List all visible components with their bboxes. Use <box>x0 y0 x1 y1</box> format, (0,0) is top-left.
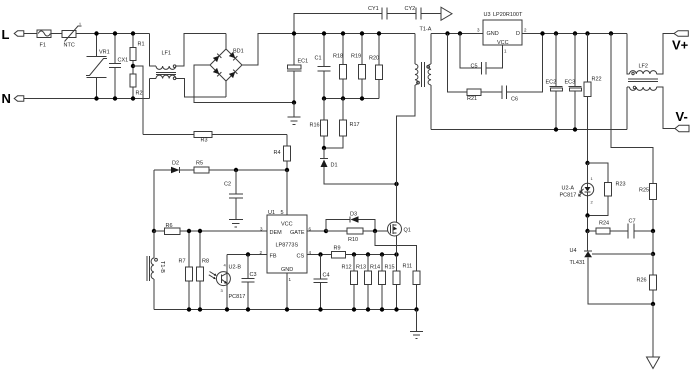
junction EC3 rail <box>573 31 577 35</box>
terminal V- <box>675 109 689 132</box>
svg-text:T1-A: T1-A <box>420 27 432 33</box>
svg-text:R15: R15 <box>385 265 395 271</box>
svg-text:R11: R11 <box>403 264 413 270</box>
wire secondary top rail <box>431 33 483 35</box>
junction R14 rail <box>380 307 384 311</box>
earth output <box>652 304 654 357</box>
svg-text:R9: R9 <box>334 246 341 252</box>
junction R22 rail <box>585 31 589 35</box>
junction R18 bottom <box>341 96 345 100</box>
svg-text:R26: R26 <box>637 278 647 284</box>
resistor R23 <box>588 163 626 216</box>
diode D2 <box>154 161 194 174</box>
svg-text:GND: GND <box>281 267 293 273</box>
wire CY branch <box>294 14 382 34</box>
earth arrow <box>441 7 452 20</box>
svg-text:R3: R3 <box>201 138 208 144</box>
capacitor C4 <box>314 255 330 310</box>
wire R25 branch <box>611 34 653 184</box>
junction R1 R2 <box>131 64 135 68</box>
svg-text:DEM: DEM <box>270 230 283 236</box>
svg-text:R12: R12 <box>342 265 352 271</box>
resistor R15 <box>385 255 401 310</box>
junction C1 bottom <box>322 96 326 100</box>
fuse F1 <box>37 30 51 49</box>
resistor R1 <box>130 34 145 67</box>
resistor R10 <box>326 228 388 243</box>
resistor R6 <box>154 223 267 234</box>
junction C4 rail <box>318 307 322 311</box>
resistor R19 <box>351 34 366 99</box>
diode D3 <box>326 212 375 232</box>
junction C6 rail <box>540 31 544 35</box>
svg-text:EC1: EC1 <box>298 59 309 65</box>
svg-text:R19: R19 <box>351 54 361 60</box>
junction C2 top <box>234 168 238 172</box>
inductor LF2 <box>627 34 675 130</box>
optocoupler U2-A <box>560 163 594 216</box>
resistor R17 <box>324 99 360 149</box>
junction R18 rail <box>341 31 345 35</box>
wire BD1 positive to DC rail <box>242 34 415 66</box>
svg-text:R6: R6 <box>166 223 173 229</box>
resistor R22 <box>584 34 602 164</box>
wire NTC to rail <box>76 33 150 35</box>
junction opto A bottom <box>585 213 589 217</box>
junction R13 rail <box>366 307 370 311</box>
capacitor C1 <box>315 34 331 99</box>
svg-text:PC817: PC817 <box>560 193 577 199</box>
svg-text:CY2: CY2 <box>405 6 416 12</box>
svg-text:CS: CS <box>297 254 305 260</box>
junction T1B rail <box>187 307 191 311</box>
inductor LF1 <box>150 34 227 99</box>
svg-text:EC3: EC3 <box>565 80 576 86</box>
svg-text:U4: U4 <box>570 248 577 254</box>
svg-text:C1: C1 <box>315 56 322 62</box>
junction EC2 rail <box>554 31 558 35</box>
resistor R8 <box>197 231 210 310</box>
svg-text:TL431: TL431 <box>570 260 586 266</box>
svg-text:R17: R17 <box>350 122 360 128</box>
svg-text:R24: R24 <box>599 221 609 227</box>
svg-text:D: D <box>516 31 520 37</box>
svg-text:LF1: LF1 <box>162 51 171 57</box>
junction R25 bottom <box>651 229 655 233</box>
junction R25 rail <box>609 31 613 35</box>
resistor R18 <box>333 34 347 99</box>
junction R15 rail <box>394 307 398 311</box>
junction R19 rail <box>360 31 364 35</box>
junction VCC node <box>285 168 289 172</box>
junction opto A top <box>585 161 589 165</box>
svg-text:N: N <box>2 91 11 106</box>
resistor R12 <box>342 255 358 310</box>
transformer T1-B <box>147 231 165 310</box>
varistor VR1 <box>86 34 110 99</box>
junction D1 drain <box>394 182 398 186</box>
svg-text:FB: FB <box>270 254 277 260</box>
svg-text:D3: D3 <box>350 212 357 218</box>
resistor R7 <box>179 231 193 310</box>
capacitor C5 <box>460 34 486 75</box>
IC U3 LP20R100T <box>477 12 527 54</box>
junction rail 447 <box>445 31 449 35</box>
svg-text:PC817: PC817 <box>229 294 246 300</box>
junction C3 rail <box>246 307 250 311</box>
junction R16 D1 <box>322 146 326 150</box>
wire Q1 drain <box>396 184 398 222</box>
svg-text:EC2: EC2 <box>546 80 557 86</box>
wire primary bottom rail <box>154 309 417 311</box>
wire gate pulldown branch <box>375 231 417 271</box>
resistor R13 <box>356 255 372 310</box>
capacitor CY2 <box>405 6 442 20</box>
svg-text:CX1: CX1 <box>118 58 129 64</box>
svg-text:GATE: GATE <box>290 230 305 236</box>
junction R8 rail <box>198 307 202 311</box>
svg-text:R8: R8 <box>202 259 209 265</box>
svg-text:C3: C3 <box>250 272 257 278</box>
wire secondary ground rail <box>431 129 627 131</box>
ground C2 <box>229 220 243 228</box>
svg-text:R14: R14 <box>370 265 380 271</box>
terminal V+ <box>672 31 689 53</box>
svg-text:VR1: VR1 <box>99 50 110 56</box>
svg-text:D1: D1 <box>331 163 338 169</box>
junction ref node <box>651 252 655 256</box>
resistor R9 <box>332 246 397 258</box>
junction R12 rail <box>352 307 356 311</box>
svg-text:V-: V- <box>676 109 688 124</box>
resistor R3 <box>194 132 287 144</box>
svg-text:D2: D2 <box>172 161 179 167</box>
svg-text:C7: C7 <box>629 219 636 225</box>
wire R1R2 junction to R3 <box>133 66 143 135</box>
svg-text:R25: R25 <box>639 188 649 194</box>
terminal L <box>2 27 24 42</box>
junction C1 rail <box>322 31 326 35</box>
svg-text:U1: U1 <box>268 210 275 216</box>
svg-text:LF2: LF2 <box>639 64 648 70</box>
junction R26 bottom <box>651 302 655 306</box>
resistor R20 <box>369 34 383 99</box>
junction U2B rail <box>225 307 229 311</box>
junction R8 top <box>198 229 202 233</box>
svg-text:R13: R13 <box>356 265 366 271</box>
svg-text:R18: R18 <box>333 54 343 60</box>
mosfet Q1 <box>388 222 411 236</box>
capacitor C2 <box>224 170 243 220</box>
svg-text:R21: R21 <box>467 96 477 102</box>
svg-text:CY1: CY1 <box>368 6 379 12</box>
capacitor EC3 <box>565 34 582 130</box>
resistor R26 <box>637 254 657 304</box>
svg-text:R16: R16 <box>310 123 320 129</box>
terminal N <box>2 91 24 106</box>
wire U1 GND pin <box>286 273 288 310</box>
wire BD1 top input <box>225 34 227 50</box>
resistor R16 <box>310 99 328 149</box>
svg-text:R1: R1 <box>138 42 145 48</box>
junction R2 bottom <box>131 96 135 100</box>
capacitor C6 <box>502 34 543 103</box>
svg-text:V+: V+ <box>672 38 689 53</box>
junction C3 top <box>246 252 250 256</box>
junction GND rail <box>285 307 289 311</box>
capacitor C3 <box>242 255 257 310</box>
svg-text:LP8773S: LP8773S <box>276 243 299 249</box>
junction CX1 bottom <box>113 96 117 100</box>
junction R19 bottom <box>360 96 364 100</box>
junction R15 top <box>394 252 398 256</box>
capacitor C7 <box>628 219 653 239</box>
junction EC1 top <box>292 31 296 35</box>
IC U1 LP8773S <box>260 210 312 282</box>
wire divider <box>652 231 654 254</box>
wire BD1 bottom input <box>225 81 227 97</box>
wire D2 left leg <box>153 170 155 231</box>
svg-text:L: L <box>2 27 10 42</box>
resistor R5 <box>194 161 287 174</box>
svg-text:GND: GND <box>487 31 499 37</box>
svg-text:R20: R20 <box>369 56 379 62</box>
capacitor EC2 <box>546 34 563 130</box>
resistor R24 <box>588 221 629 235</box>
resistor R4 <box>274 135 291 171</box>
svg-text:R22: R22 <box>592 77 602 83</box>
svg-text:U2-B: U2-B <box>229 265 242 271</box>
svg-text:R23: R23 <box>616 182 626 188</box>
svg-text:R4: R4 <box>274 150 281 156</box>
junction EC1 bottom <box>292 100 296 104</box>
junction R12 top <box>352 252 356 256</box>
ground primary <box>288 103 301 125</box>
svg-text:LP20R100T: LP20R100T <box>493 12 523 18</box>
svg-text:VCC: VCC <box>281 222 293 228</box>
wire R21 branch <box>448 34 468 93</box>
capacitor EC1 <box>287 34 308 103</box>
ground R11 <box>410 310 423 339</box>
junction R13 top <box>366 252 370 256</box>
capacitor CX1 <box>109 34 128 99</box>
svg-text:R2: R2 <box>136 91 143 97</box>
wire R3 feed <box>143 134 194 136</box>
svg-text:R10: R10 <box>348 237 358 243</box>
svg-text:T1-B: T1-B <box>159 261 165 273</box>
svg-text:NTC: NTC <box>64 43 75 49</box>
svg-text:5: 5 <box>281 210 284 216</box>
diode D1 <box>320 148 397 184</box>
junction VR1 top <box>94 31 98 35</box>
wire L input <box>24 33 37 35</box>
bridge rectifier BD1 <box>210 49 244 82</box>
svg-text:C4: C4 <box>323 273 330 279</box>
shunt regulator U4 TL431 <box>570 231 654 304</box>
wire GATE row <box>307 230 326 232</box>
junction R11 rail <box>414 307 418 311</box>
resistor R14 <box>370 255 386 310</box>
svg-text:U2-A: U2-A <box>562 186 575 192</box>
junction rail 460 <box>458 31 462 35</box>
thermistor NTC <box>62 21 82 49</box>
junction R7 top <box>187 229 191 233</box>
resistor R25 <box>639 184 657 232</box>
svg-text:R7: R7 <box>179 259 186 265</box>
junction gate right <box>373 229 377 233</box>
capacitor CY1 <box>368 6 416 20</box>
junction R1 top <box>131 31 135 35</box>
wire U3 VCC <box>486 45 503 68</box>
wire F1 to NTC <box>51 33 62 35</box>
resistor R11 <box>403 264 421 310</box>
wire N rail <box>24 98 150 100</box>
svg-text:BD1: BD1 <box>233 49 244 55</box>
wire U3 D to output rail <box>522 33 627 35</box>
junction R20 rail <box>377 31 381 35</box>
svg-text:C5: C5 <box>471 64 478 70</box>
junction EC2 ground <box>554 127 558 131</box>
junction R24 node <box>585 229 589 233</box>
wire BD1 negative to ground rail <box>194 65 294 103</box>
wire VCC pin <box>286 170 288 215</box>
svg-text:R5: R5 <box>196 161 203 167</box>
transformer T1-A <box>397 27 432 223</box>
junction DEM node <box>152 229 156 233</box>
resistor R2 <box>130 66 143 99</box>
junction EC3 ground <box>573 127 577 131</box>
svg-text:Q1: Q1 <box>404 228 411 234</box>
junction CX1 top <box>113 31 117 35</box>
wire Q1 source <box>396 236 398 255</box>
wire FB row <box>227 254 267 256</box>
svg-text:U3: U3 <box>484 12 491 18</box>
wire opto to R24 <box>587 216 589 232</box>
wire snubber bus <box>324 98 379 100</box>
svg-text:F1: F1 <box>40 43 46 49</box>
optocoupler U2-B <box>209 255 246 310</box>
wire CS row <box>307 254 332 256</box>
junction R14 top <box>380 252 384 256</box>
junction VR1 bottom <box>94 96 98 100</box>
junction gate left <box>324 229 328 233</box>
svg-text:C6: C6 <box>511 97 518 103</box>
resistor R21 <box>467 89 502 102</box>
junction C4 top <box>318 252 322 256</box>
svg-text:C2: C2 <box>224 182 231 188</box>
